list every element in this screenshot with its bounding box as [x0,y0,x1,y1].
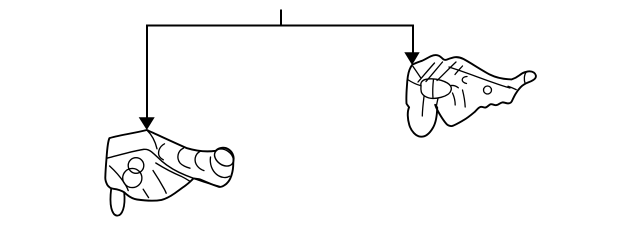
part left: rib arc 1 [159,144,165,160]
part right: fold to bottom edge [453,93,456,105]
arrowhead left [139,117,155,130]
part left: ear upper circle [128,158,144,174]
part right: central lobe [421,79,451,99]
part right: lobe right connector [451,85,458,87]
part right: crease under apex [413,67,421,78]
part left: lower-left crease [110,166,129,191]
part right: lobe crease 2 [436,98,438,107]
part left: rib arc 3 [195,151,204,170]
part left: lower-left short crease [143,189,148,197]
part right: fold to bottom edge 2 [463,90,466,107]
part right: fold diagonal C [437,62,456,81]
part right: bolt hole [484,86,492,94]
part right: fold diagonal B [426,62,443,82]
part right: beak crease [508,86,516,89]
arrowhead right [404,52,419,65]
part right: lobe crease 1 [422,97,424,117]
part right: lobe divide [432,79,435,98]
part left: tip cap oval [211,145,237,169]
part right: lobe left connector [408,80,421,86]
part left: collar arc under apex [147,130,157,149]
part left: ear lower circle [123,168,142,187]
leader bracket: horizontal with two verticals [147,26,413,119]
callout tick [280,10,282,26]
part left: cylinder cuff arc [210,157,229,178]
part left: long diagonal into band bottom edge [107,149,220,186]
part right: fold diagonal D [455,66,463,75]
part left: lobe crease [153,171,166,194]
part left: band inner diagonal [156,163,190,181]
part right: bracket outline [406,55,536,137]
part left: thumb [110,189,124,216]
part left: rib arc 2 [178,148,190,168]
part right: beak tip cap [524,72,526,84]
part right: small hook [462,77,467,84]
part right: fold diagonal A [418,63,435,82]
part right: upper parallel line [449,67,510,88]
part left: bracket outline [105,130,233,201]
